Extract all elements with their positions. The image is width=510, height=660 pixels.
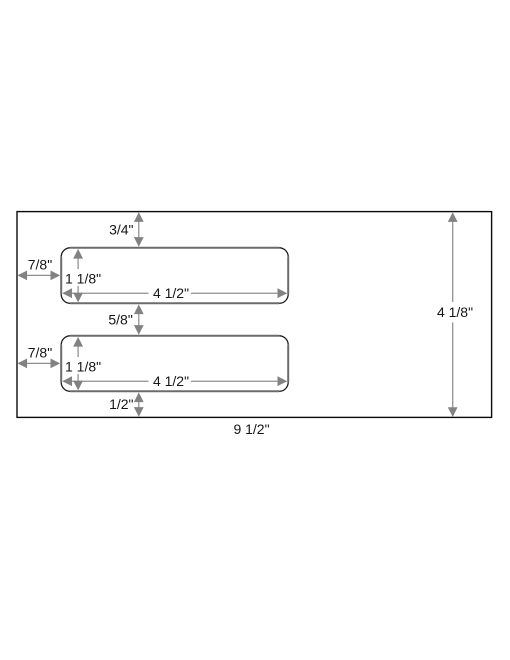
svg-text:1 1/8": 1 1/8" [65,359,101,375]
svg-text:3/4": 3/4" [109,221,133,237]
svg-text:1 1/8": 1 1/8" [65,271,101,287]
svg-text:9 1/2": 9 1/2" [233,421,269,437]
svg-text:1/2": 1/2" [109,396,133,412]
svg-text:4 1/2": 4 1/2" [153,373,189,389]
svg-text:5/8": 5/8" [108,312,132,328]
svg-text:4 1/2": 4 1/2" [153,285,189,301]
svg-text:7/8": 7/8" [28,345,52,361]
svg-text:7/8": 7/8" [28,257,52,273]
svg-text:4 1/8": 4 1/8" [437,304,473,320]
